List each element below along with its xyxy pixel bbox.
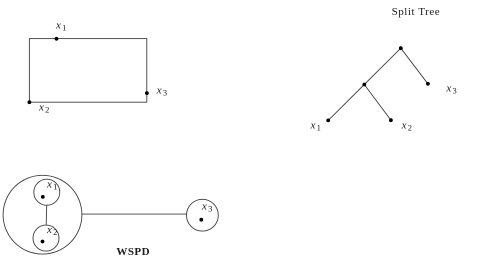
svg-text:x1: x1 <box>46 179 57 192</box>
svg-text:Split Tree: Split Tree <box>392 6 441 18</box>
svg-text:x2: x2 <box>46 224 57 237</box>
point x2 on rectangle <box>28 100 32 104</box>
svg-text:x1: x1 <box>55 20 66 33</box>
WSPD small circle x2 <box>33 225 59 251</box>
svg-text:x2: x2 <box>401 120 412 133</box>
WSPD small circle x1 <box>34 179 60 205</box>
tree edge internal to leaf x1 <box>328 85 364 121</box>
bounding rectangle <box>29 39 146 103</box>
tree edge root to internal <box>364 48 401 84</box>
svg-text:x3: x3 <box>445 82 456 95</box>
WSPD big circle <box>3 175 82 254</box>
tree leaf x3 <box>426 82 430 86</box>
WSPD point x1 <box>41 195 45 199</box>
WSPD point x3 <box>199 218 203 222</box>
tree edge root to leaf x3 <box>401 48 428 84</box>
WSPD small circle x3 <box>187 199 219 231</box>
tree internal node <box>362 83 366 87</box>
svg-text:WSPD: WSPD <box>116 246 150 258</box>
svg-text:x1: x1 <box>310 119 321 132</box>
wire big circle to x3 circle <box>82 213 187 215</box>
svg-text:x3: x3 <box>201 201 212 214</box>
point x1 on rectangle <box>55 37 59 41</box>
svg-text:x2: x2 <box>38 102 49 115</box>
wire between small circles <box>45 205 48 225</box>
tree leaf x1 <box>326 119 330 123</box>
WSPD point x2 <box>41 240 45 244</box>
svg-text:x3: x3 <box>156 84 167 97</box>
point x3 on rectangle <box>145 91 149 95</box>
tree leaf x2 <box>389 118 393 122</box>
tree root node <box>399 46 403 50</box>
tree edge internal to leaf x2 <box>364 85 391 121</box>
